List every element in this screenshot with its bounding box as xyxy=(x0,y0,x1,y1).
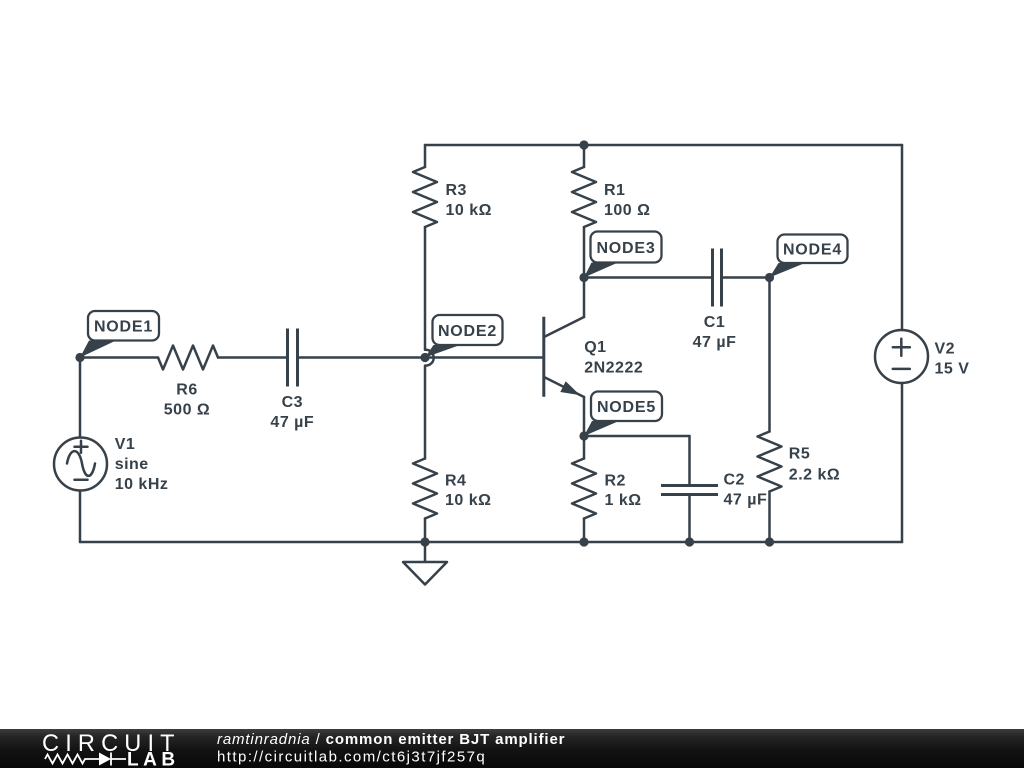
label V2 value xyxy=(935,340,970,377)
wire left rail upper xyxy=(79,358,82,438)
svg-text:LAB: LAB xyxy=(127,750,180,768)
svg-text:NODE2: NODE2 xyxy=(438,323,497,340)
svg-text:2.2 kΩ: 2.2 kΩ xyxy=(789,466,840,483)
junction NODE3 xyxy=(579,273,588,282)
svg-text:NODE1: NODE1 xyxy=(94,319,153,336)
footer title text xyxy=(217,731,565,748)
junction top rail / R1 xyxy=(579,140,588,149)
wire NODE5 to C2 xyxy=(584,435,690,438)
svg-text:ramtinradnia / common emitter: ramtinradnia / common emitter BJT amplif… xyxy=(217,731,565,748)
wire C2 top lead xyxy=(688,436,691,484)
node NODE2 label xyxy=(425,315,503,358)
svg-text:10 kΩ: 10 kΩ xyxy=(445,492,491,509)
svg-text:10 kΩ: 10 kΩ xyxy=(446,202,492,219)
wire top rail xyxy=(425,144,902,147)
resistor R1 xyxy=(572,167,596,227)
wire C1 to NODE4 xyxy=(723,276,770,279)
wire left rail lower xyxy=(79,491,82,543)
wire NODE2 to R4 xyxy=(424,366,427,459)
svg-text:V1: V1 xyxy=(115,436,136,453)
svg-text:NODE5: NODE5 xyxy=(597,399,656,416)
label R6 value xyxy=(164,382,210,419)
footer url text xyxy=(217,749,486,766)
svg-text:500 Ω: 500 Ω xyxy=(164,402,210,419)
label R5 value xyxy=(789,446,840,484)
svg-text:sine: sine xyxy=(115,456,149,473)
wire C2 bottom lead xyxy=(688,496,691,542)
wire R1 to NODE3 xyxy=(583,227,586,278)
ground xyxy=(403,562,447,585)
resistor R6 xyxy=(158,346,218,370)
junction R5 bottom xyxy=(765,537,774,546)
junction R2 bottom xyxy=(579,537,588,546)
capacitor C1 xyxy=(713,249,722,307)
capacitor C3 xyxy=(288,329,298,387)
wire C3 to Q1 base xyxy=(299,356,544,359)
wire R5 bottom lead xyxy=(768,492,771,543)
svg-text:R3: R3 xyxy=(446,182,467,199)
wire R1 top lead xyxy=(583,145,586,167)
label R4 value xyxy=(445,473,491,510)
resistor R4 xyxy=(413,459,437,519)
label V1 value xyxy=(115,436,169,493)
node NODE5 label xyxy=(584,392,662,437)
svg-text:C1: C1 xyxy=(704,314,725,331)
junction NODE5 xyxy=(579,431,588,440)
junction ground rail xyxy=(420,537,429,546)
footer bar xyxy=(0,729,1024,768)
label C3 value xyxy=(270,394,314,431)
svg-text:C2: C2 xyxy=(724,472,745,489)
resistor R3 xyxy=(413,167,437,227)
wire R4 bottom lead xyxy=(424,519,427,543)
wire ground stub xyxy=(424,542,427,561)
CircuitLab logo xyxy=(42,731,181,768)
svg-text:NODE4: NODE4 xyxy=(783,242,842,259)
svg-text:2N2222: 2N2222 xyxy=(584,360,643,377)
junction NODE2 xyxy=(420,353,429,362)
label R2 value xyxy=(605,473,642,510)
junction NODE1 xyxy=(75,353,84,362)
svg-text:47 µF: 47 µF xyxy=(270,414,314,431)
svg-text:Q1: Q1 xyxy=(584,339,606,356)
svg-text:R2: R2 xyxy=(605,473,626,490)
wire hop at NODE2 xyxy=(426,350,434,366)
label C1 value xyxy=(693,314,737,351)
svg-text:R1: R1 xyxy=(604,182,625,199)
svg-text:V2: V2 xyxy=(935,340,956,357)
voltage source V1 xyxy=(54,438,107,491)
wire R6 to C3 xyxy=(218,356,286,359)
wire Q1 collector lead xyxy=(583,278,586,318)
wire NODE4 to R5 xyxy=(768,278,771,432)
svg-text:100 Ω: 100 Ω xyxy=(604,202,650,219)
wire R3 top lead xyxy=(424,145,427,167)
resistor R5 xyxy=(758,432,782,492)
capacitor C2 xyxy=(661,486,718,495)
transistor Q1 xyxy=(544,317,584,397)
wire right rail upper xyxy=(901,145,904,330)
label R1 value xyxy=(604,182,650,219)
svg-text:http://circuitlab.com/ct6j3t7j: http://circuitlab.com/ct6j3t7jf257q xyxy=(217,749,486,766)
wire NODE3 to C1 xyxy=(584,276,711,279)
svg-text:15 V: 15 V xyxy=(935,360,970,377)
svg-text:C3: C3 xyxy=(282,394,303,411)
svg-text:NODE3: NODE3 xyxy=(596,240,655,257)
junction NODE4 xyxy=(765,273,774,282)
svg-text:R6: R6 xyxy=(176,382,197,399)
node NODE4 label xyxy=(770,235,848,278)
svg-text:10 kHz: 10 kHz xyxy=(115,476,169,493)
svg-text:R5: R5 xyxy=(789,446,810,463)
wire right rail lower xyxy=(901,383,904,542)
svg-text:1 kΩ: 1 kΩ xyxy=(605,492,642,509)
svg-text:47 µF: 47 µF xyxy=(724,491,768,508)
wire R2 bottom lead xyxy=(583,519,586,543)
junction C2 bottom xyxy=(685,537,694,546)
wire R3 to NODE2 xyxy=(424,227,427,350)
wire bottom rail xyxy=(80,541,902,544)
label C2 value xyxy=(724,472,768,509)
label Q1 value xyxy=(584,339,643,377)
node NODE1 label xyxy=(80,311,159,358)
voltage source V2 xyxy=(875,330,928,383)
label R3 value xyxy=(446,182,492,219)
svg-text:R4: R4 xyxy=(445,473,466,490)
wire Q1 emitter lead xyxy=(583,397,586,436)
wire NODE5 to R2 xyxy=(583,436,586,459)
svg-text:47 µF: 47 µF xyxy=(693,334,737,351)
node NODE3 label xyxy=(584,232,662,278)
wire input segment NODE1 to R6 xyxy=(80,356,158,359)
resistor R2 xyxy=(572,459,596,519)
